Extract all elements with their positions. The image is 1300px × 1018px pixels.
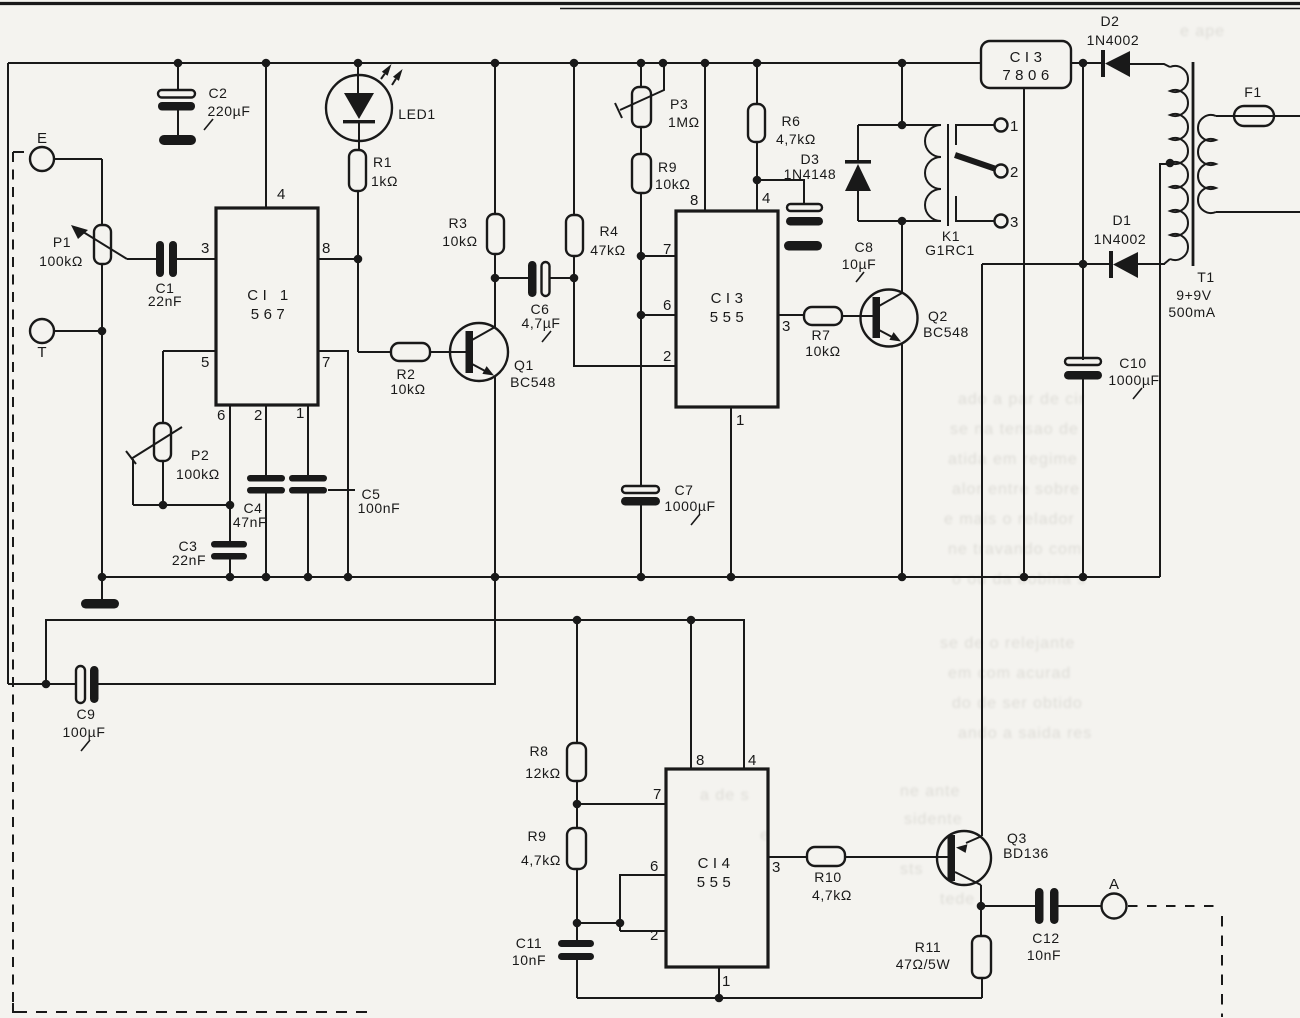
svg-text:4,7kΩ: 4,7kΩ bbox=[521, 852, 561, 868]
svg-text:R3: R3 bbox=[448, 215, 467, 231]
diode D3 bbox=[857, 125, 859, 161]
svg-text:G1RC1: G1RC1 bbox=[925, 242, 975, 258]
svg-text:8: 8 bbox=[690, 192, 698, 209]
wire P1 bottom to T and bus bbox=[101, 264, 103, 577]
junction pin6 link bbox=[616, 919, 625, 928]
dashed border bottom bbox=[16, 1011, 372, 1013]
svg-text:2: 2 bbox=[1010, 164, 1018, 181]
svg-text:1000µF: 1000µF bbox=[1108, 372, 1159, 388]
svg-text:47kΩ: 47kΩ bbox=[590, 242, 625, 258]
svg-text:500mA: 500mA bbox=[1168, 304, 1215, 320]
pin 6 CI4 wire bbox=[620, 875, 666, 931]
svg-text:1N4002: 1N4002 bbox=[1094, 231, 1147, 247]
svg-text:sidente: sidente bbox=[904, 811, 963, 828]
wire R1 to pin8 node bbox=[357, 191, 359, 352]
svg-text:CI 1: CI 1 bbox=[247, 287, 293, 304]
pin 7 CI1 bbox=[318, 351, 348, 577]
relay K1 coil bbox=[925, 125, 941, 221]
wire T1 primary bottom to D1 bbox=[1138, 259, 1170, 264]
svg-text:6: 6 bbox=[663, 297, 671, 314]
svg-text:P1: P1 bbox=[53, 234, 71, 250]
svg-text:1: 1 bbox=[1010, 118, 1018, 135]
svg-text:4: 4 bbox=[277, 186, 285, 203]
svg-text:47nF: 47nF bbox=[233, 514, 267, 530]
svg-text:R7: R7 bbox=[811, 327, 830, 343]
svg-text:se na tensao de: se na tensao de bbox=[950, 421, 1079, 438]
transistor Q2 bbox=[861, 290, 918, 347]
svg-text:22nF: 22nF bbox=[172, 552, 206, 568]
svg-text:C10: C10 bbox=[1119, 355, 1146, 371]
diode D1 bbox=[1109, 251, 1113, 278]
wire P1 wiper to C1 bbox=[127, 258, 156, 260]
svg-text:4: 4 bbox=[762, 190, 770, 207]
pin 4 CI3 bbox=[756, 180, 758, 211]
transistor Q1 bbox=[450, 323, 508, 381]
pin 2 CI1 bbox=[265, 405, 267, 475]
svg-text:C7: C7 bbox=[674, 482, 693, 498]
wire to C8 bbox=[757, 180, 804, 204]
wire rail 7806 to D2 bbox=[1071, 62, 1103, 64]
svg-text:sts: sts bbox=[900, 861, 923, 878]
resistor R11 bbox=[980, 906, 982, 936]
wire relay to Q2 collector bbox=[901, 221, 903, 293]
svg-text:220µF: 220µF bbox=[208, 103, 251, 119]
wire bottom bus bbox=[577, 997, 982, 999]
svg-text:100kΩ: 100kΩ bbox=[39, 253, 83, 269]
junction rail/R3 bbox=[491, 59, 500, 68]
svg-text:T1: T1 bbox=[1197, 269, 1215, 285]
pin 6 CI1 bbox=[229, 405, 231, 541]
svg-text:555: 555 bbox=[710, 309, 749, 326]
junction R9/C11/pin2 bbox=[573, 919, 582, 928]
wire R3 to Q1 collector bbox=[494, 254, 496, 328]
svg-text:22nF: 22nF bbox=[148, 293, 182, 309]
svg-text:C11: C11 bbox=[516, 935, 542, 951]
wire left border (antenna return) bbox=[7, 63, 9, 684]
potentiometer P1 bbox=[94, 225, 111, 264]
junction pin6/wiper wire bbox=[226, 501, 235, 510]
junction R6/pin4/C8 bbox=[753, 176, 762, 185]
svg-text:10nF: 10nF bbox=[1027, 947, 1061, 963]
wire CI4 pin8 riser bbox=[690, 620, 692, 769]
transformer center tap bbox=[1166, 159, 1175, 168]
wire pin8 node to R2 bbox=[358, 351, 391, 353]
svg-text:1000µF: 1000µF bbox=[664, 498, 715, 514]
resistor R8 bbox=[567, 743, 586, 781]
junction relay top bbox=[898, 121, 907, 130]
svg-text:do de ser obtido: do de ser obtido bbox=[952, 695, 1083, 712]
junction rail/CI1 pin4 bbox=[262, 59, 271, 68]
junction T/P1 bottom bbox=[98, 327, 107, 336]
resistor R7 bbox=[804, 307, 842, 325]
svg-text:R6: R6 bbox=[781, 113, 800, 129]
svg-text:567: 567 bbox=[251, 306, 290, 323]
capacitor C7 bbox=[622, 486, 659, 493]
svg-text:a de s: a de s bbox=[700, 787, 750, 804]
svg-text:R2: R2 bbox=[396, 366, 415, 382]
svg-text:BC548: BC548 bbox=[923, 324, 969, 340]
svg-text:R9: R9 bbox=[658, 159, 677, 175]
junction bus/C5 bbox=[304, 573, 313, 582]
svg-text:A: A bbox=[1109, 876, 1119, 893]
svg-text:100nF: 100nF bbox=[358, 500, 401, 516]
junction rail/D2 anode bbox=[1079, 59, 1088, 68]
svg-text:C9: C9 bbox=[76, 706, 95, 722]
wire ground bus bbox=[102, 576, 1160, 578]
svg-text:3: 3 bbox=[1010, 214, 1018, 231]
wire R9 to pin7/pin6/C7 bbox=[640, 193, 642, 486]
transistor Q3 bbox=[937, 831, 991, 885]
svg-text:10kΩ: 10kΩ bbox=[655, 176, 690, 192]
LED LED1 bbox=[326, 75, 392, 141]
svg-text:e ape: e ape bbox=[1180, 23, 1225, 40]
capacitor C9 bbox=[76, 666, 85, 703]
wire P2 wiper bus to pin6 bbox=[133, 504, 230, 506]
wire Q3 collector node bbox=[980, 885, 982, 906]
svg-text:alor entre sobre: alor entre sobre bbox=[952, 481, 1080, 498]
wire relay top bbox=[858, 124, 941, 126]
wire pin2/pin6 link bbox=[577, 922, 620, 924]
potentiometer P3 bbox=[640, 63, 642, 87]
resistor R9 (bottom) bbox=[567, 828, 586, 869]
relay K1 core bbox=[947, 124, 949, 226]
IC CI4 555 bbox=[666, 769, 768, 967]
svg-text:7: 7 bbox=[653, 786, 661, 803]
svg-text:2: 2 bbox=[663, 348, 671, 365]
junction bus/CI1 pin7 bbox=[344, 573, 353, 582]
wire R8 to R9 bbox=[576, 781, 578, 828]
svg-text:1N4002: 1N4002 bbox=[1087, 32, 1140, 48]
resistor R10 bbox=[807, 847, 845, 866]
svg-text:C8: C8 bbox=[854, 239, 873, 255]
junction bus/C10 bbox=[1079, 573, 1088, 582]
svg-text:1kΩ: 1kΩ bbox=[371, 173, 398, 189]
relay contact 2 bbox=[995, 165, 1008, 178]
svg-text:2: 2 bbox=[650, 927, 658, 944]
svg-text:F1: F1 bbox=[1244, 84, 1262, 100]
junction pin6 bbox=[637, 311, 646, 320]
svg-text:3: 3 bbox=[782, 318, 790, 335]
relay contact 1 bbox=[995, 119, 1008, 132]
wire R2 to Q1 base bbox=[430, 351, 466, 353]
relay contact 3 bbox=[995, 215, 1008, 228]
svg-text:10µF: 10µF bbox=[842, 256, 877, 272]
junction bus/Q1 emitter/C9 bbox=[491, 573, 500, 582]
wire relay bottom bbox=[858, 220, 941, 222]
resistor R6 bbox=[756, 63, 758, 104]
pin 5 CI1 bbox=[163, 350, 216, 352]
pin 6 CI3 bbox=[641, 314, 676, 316]
junction bottom bus/pin1 bbox=[715, 994, 724, 1003]
wire node to C12 bbox=[981, 905, 1035, 907]
svg-text:D2: D2 bbox=[1100, 13, 1119, 29]
pin 3 CI4 bbox=[768, 856, 807, 858]
svg-text:R11: R11 bbox=[915, 939, 941, 955]
svg-text:E: E bbox=[37, 130, 47, 147]
junction C6 left bbox=[491, 274, 500, 283]
junction rail/CI3 pin8 bbox=[701, 59, 710, 68]
svg-text:se de o relejante: se de o relejante bbox=[940, 635, 1075, 652]
svg-text:7806: 7806 bbox=[1002, 67, 1053, 84]
wire T to P1 column bbox=[54, 330, 102, 332]
junction pin8/R1 bbox=[354, 255, 363, 264]
potentiometer P2 bbox=[162, 351, 164, 423]
svg-text:1N4148: 1N4148 bbox=[784, 166, 837, 182]
resistor R9 (top) bbox=[640, 127, 642, 154]
svg-text:atida em regime: atida em regime bbox=[948, 451, 1078, 468]
svg-text:D1: D1 bbox=[1112, 212, 1131, 228]
page top rule bbox=[0, 2, 1300, 5]
junction C6 right bbox=[570, 274, 579, 283]
capacitor C4 bbox=[247, 475, 285, 482]
terminal A bbox=[1102, 894, 1127, 919]
capacitor C3 bbox=[211, 541, 247, 548]
wire C11 to bottom bus bbox=[576, 960, 578, 998]
ground (C2) bbox=[159, 135, 196, 145]
junction bus/C4 bbox=[262, 573, 271, 582]
junction rail/R6 bbox=[753, 59, 762, 68]
wire R9 to C11 bbox=[576, 869, 578, 941]
wire CI4 supply net y=620 bbox=[46, 620, 744, 769]
IC CI1 567 bbox=[216, 208, 318, 405]
svg-text:tede: tede bbox=[940, 891, 975, 908]
fuse F1 bbox=[1234, 106, 1274, 126]
svg-text:5: 5 bbox=[201, 354, 209, 371]
wire rail to relay bbox=[901, 63, 903, 125]
diode D2 bbox=[1101, 50, 1105, 77]
wire C12 to A bbox=[1059, 905, 1102, 907]
wire C1 to CI1 pin3 bbox=[177, 258, 216, 260]
svg-text:BD136: BD136 bbox=[1003, 845, 1049, 861]
junction C9 left/border bbox=[42, 680, 51, 689]
svg-text:P3: P3 bbox=[670, 96, 688, 112]
wire secondary bottom bbox=[1216, 211, 1300, 213]
capacitor C6 bbox=[495, 277, 528, 279]
junction bus/7806 gnd bbox=[1020, 573, 1029, 582]
junction bus/C7 bbox=[637, 573, 646, 582]
transformer T1 primary coil bbox=[1170, 66, 1188, 260]
junction y620/R8 bbox=[573, 616, 582, 625]
svg-text:4,7µF: 4,7µF bbox=[521, 315, 560, 331]
terminal E bbox=[30, 147, 54, 171]
svg-text:C2: C2 bbox=[208, 85, 227, 101]
svg-text:CI3: CI3 bbox=[1010, 49, 1047, 66]
resistor R2 bbox=[391, 343, 430, 361]
svg-text:ne travando com: ne travando com bbox=[948, 541, 1082, 558]
wire C9 right to ground bus bbox=[97, 577, 495, 684]
svg-text:C12: C12 bbox=[1032, 930, 1059, 946]
svg-text:1: 1 bbox=[736, 412, 744, 429]
junction y620/CI4 pin8 bbox=[687, 616, 696, 625]
svg-text:10nF: 10nF bbox=[512, 952, 546, 968]
wire 7806 gnd to bus bbox=[1023, 88, 1025, 577]
wire Q1 emitter to bus bbox=[494, 377, 496, 577]
junction relay bottom bbox=[898, 217, 907, 226]
resistor R4 bbox=[573, 63, 575, 215]
pin 1 CI4 bbox=[718, 967, 720, 998]
ground symbol main bbox=[101, 577, 103, 599]
pin 2 CI4 wire bbox=[620, 930, 666, 932]
svg-text:6: 6 bbox=[217, 407, 225, 424]
svg-text:R9: R9 bbox=[527, 828, 546, 844]
junction D1/D2 column bbox=[1079, 260, 1088, 269]
wire D2 junction column bbox=[1082, 63, 1084, 360]
wire R6 to pin4/C8 bbox=[756, 142, 758, 180]
transformer T1 secondary coil bbox=[1198, 115, 1216, 213]
svg-text:Q2: Q2 bbox=[928, 308, 948, 324]
svg-text:T: T bbox=[37, 344, 46, 361]
wire D1 bbox=[1083, 263, 1110, 265]
svg-text:1: 1 bbox=[296, 405, 304, 422]
svg-text:ne ante: ne ante bbox=[900, 783, 960, 800]
capacitor C2 bbox=[177, 63, 179, 90]
svg-text:10kΩ: 10kΩ bbox=[805, 343, 840, 359]
svg-text:555: 555 bbox=[697, 874, 736, 891]
svg-text:6: 6 bbox=[650, 858, 658, 875]
svg-text:R4: R4 bbox=[599, 223, 618, 239]
svg-text:7: 7 bbox=[322, 354, 330, 371]
svg-text:Q3: Q3 bbox=[1007, 830, 1027, 846]
pin 1 CI3 bbox=[730, 407, 732, 577]
capacitor C1 bbox=[156, 241, 164, 277]
junction rail/LED1 bbox=[354, 59, 363, 68]
relay armature bbox=[955, 155, 996, 169]
IC CI3 555 bbox=[676, 211, 778, 407]
svg-text:CI4: CI4 bbox=[698, 855, 735, 872]
svg-text:R1: R1 bbox=[373, 154, 392, 170]
junction rail/P3 wiper bbox=[659, 59, 668, 68]
wire D2 to T1 primary top bbox=[1130, 64, 1170, 67]
junction Q3/R11/C12 bbox=[977, 902, 986, 911]
wire Q2 emitter to bus bbox=[901, 343, 903, 577]
svg-text:2: 2 bbox=[254, 407, 262, 424]
junction rail/R4 bbox=[570, 59, 579, 68]
svg-text:BC548: BC548 bbox=[510, 374, 556, 390]
svg-text:em com acurad: em com acurad bbox=[948, 665, 1071, 682]
svg-text:o ou da bobina s: o ou da bobina s bbox=[952, 571, 1086, 588]
capacitor C12 bbox=[1035, 888, 1044, 924]
svg-text:R10: R10 bbox=[814, 869, 841, 885]
dashed border right bbox=[1221, 916, 1223, 1017]
svg-text:R8: R8 bbox=[529, 743, 548, 759]
svg-text:47Ω/5W: 47Ω/5W bbox=[896, 956, 951, 972]
svg-text:LED1: LED1 bbox=[398, 106, 435, 122]
wire R4 to C6/pin2 bbox=[574, 256, 676, 366]
wire +V rail bbox=[8, 62, 981, 64]
transformer T1 core bbox=[1192, 62, 1195, 266]
junction bus/Q2 emitter bbox=[898, 573, 907, 582]
capacitor C8 bbox=[787, 204, 822, 211]
svg-text:8: 8 bbox=[322, 240, 330, 257]
junction bus/T column bbox=[98, 573, 107, 582]
svg-text:12kΩ: 12kΩ bbox=[525, 765, 560, 781]
svg-text:Q1: Q1 bbox=[514, 357, 534, 373]
resistor R3 bbox=[494, 63, 496, 214]
wire C9 net y=684 bbox=[8, 683, 76, 685]
ground (C8) bbox=[784, 241, 822, 251]
wire R8 top riser bbox=[576, 620, 578, 743]
wire E to P1 column bbox=[54, 158, 102, 160]
svg-text:D3: D3 bbox=[800, 151, 819, 167]
svg-text:100kΩ: 100kΩ bbox=[176, 466, 220, 482]
junction P2 bottom bbox=[159, 501, 168, 510]
svg-text:10kΩ: 10kΩ bbox=[390, 381, 425, 397]
svg-text:CI3: CI3 bbox=[711, 290, 748, 307]
svg-text:4: 4 bbox=[748, 752, 756, 769]
svg-text:ando a saida res: ando a saida res bbox=[958, 725, 1092, 742]
pin 3 CI3 bbox=[778, 314, 804, 316]
wire secondary top to F1 bbox=[1216, 115, 1300, 117]
junction rail/C2 bbox=[174, 59, 183, 68]
pin 8 CI1 bbox=[318, 258, 358, 260]
wire unregulated supply to Q3 bbox=[982, 263, 1083, 265]
svg-text:4,7kΩ: 4,7kΩ bbox=[776, 131, 816, 147]
pin 7 CI3 bbox=[641, 255, 676, 257]
pin 7 CI4 wire bbox=[577, 803, 666, 805]
pin 4 CI1 bbox=[265, 63, 267, 208]
dashed lead from A bbox=[1128, 905, 1221, 907]
terminal T bbox=[30, 319, 54, 343]
svg-text:100µF: 100µF bbox=[63, 724, 106, 740]
svg-text:1: 1 bbox=[722, 973, 730, 990]
svg-text:ado a par de cir: ado a par de cir bbox=[958, 391, 1085, 408]
svg-text:4,7kΩ: 4,7kΩ bbox=[812, 887, 852, 903]
dashed border left bbox=[13, 151, 24, 153]
IC CI3 7806 bbox=[981, 41, 1071, 88]
faint print bleed-through text bbox=[700, 23, 1225, 908]
svg-text:9+9V: 9+9V bbox=[1176, 287, 1212, 303]
junction bus/C3 bbox=[226, 573, 235, 582]
resistor R1 bbox=[349, 150, 366, 191]
wire R10 to Q3 base bbox=[845, 856, 948, 858]
svg-text:7: 7 bbox=[663, 241, 671, 258]
junction R8/R9/pin7 bbox=[573, 800, 582, 809]
junction rail/relay K1 bbox=[898, 59, 907, 68]
svg-text:10kΩ: 10kΩ bbox=[442, 233, 477, 249]
svg-text:3: 3 bbox=[201, 240, 209, 257]
pin 1 CI1 bbox=[307, 405, 309, 475]
wire E down to P1 top bbox=[101, 159, 103, 225]
junction rail/P3 body bbox=[637, 59, 646, 68]
junction bus/CI3 pin1 bbox=[727, 573, 736, 582]
svg-text:3: 3 bbox=[772, 859, 780, 876]
pin 8 CI3 bbox=[704, 63, 706, 211]
svg-text:P2: P2 bbox=[191, 447, 209, 463]
svg-text:1MΩ: 1MΩ bbox=[668, 114, 700, 130]
svg-text:8: 8 bbox=[696, 752, 704, 769]
wire R7 to Q2 base bbox=[842, 315, 873, 317]
capacitor C11 bbox=[558, 940, 594, 947]
svg-text:e mais o relador: e mais o relador bbox=[944, 511, 1075, 528]
wire R11 to bottom bus bbox=[981, 978, 983, 998]
capacitor C5 bbox=[289, 475, 327, 482]
capacitor C10 bbox=[1065, 358, 1101, 365]
junction pin7 bbox=[637, 252, 646, 261]
